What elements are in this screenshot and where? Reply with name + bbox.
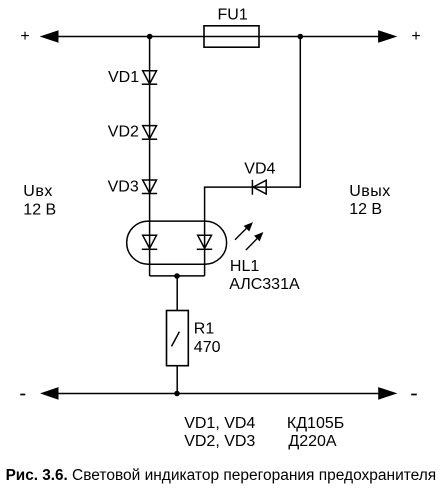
svg-text:VD4: VD4 — [244, 161, 275, 178]
svg-text:Д220А: Д220А — [288, 433, 337, 450]
svg-text:Рис. 3.6. Световой индикатор п: Рис. 3.6. Световой индикатор перегорания… — [6, 467, 437, 484]
svg-text:+: + — [411, 28, 420, 45]
svg-text:R1: R1 — [194, 321, 215, 338]
svg-text:470: 470 — [194, 339, 221, 356]
svg-text:Uвых: Uвых — [349, 183, 391, 200]
svg-text:VD1: VD1 — [108, 69, 139, 86]
svg-text:+: + — [20, 28, 29, 45]
svg-text:HL1: HL1 — [230, 258, 259, 275]
svg-text:VD2: VD2 — [108, 124, 139, 141]
svg-text:FU1: FU1 — [218, 7, 248, 24]
svg-text:КД105Б: КД105Б — [287, 415, 344, 432]
svg-text:Uвх: Uвх — [23, 183, 53, 200]
svg-text:12 В: 12 В — [349, 201, 382, 218]
svg-text:VD1, VD4: VD1, VD4 — [184, 415, 255, 432]
svg-text:VD2, VD3: VD2, VD3 — [184, 433, 255, 450]
svg-text:VD3: VD3 — [108, 179, 139, 196]
svg-text:12 В: 12 В — [23, 201, 56, 218]
svg-text:АЛС331А: АЛС331А — [229, 276, 300, 293]
